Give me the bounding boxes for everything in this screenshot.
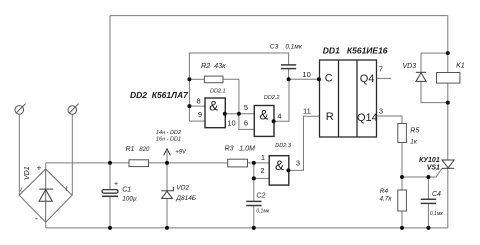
svg-text:6: 6 <box>244 119 248 128</box>
svg-text:2: 2 <box>260 166 264 175</box>
svg-text:&: & <box>209 99 218 114</box>
wire node C to DD1 pin10 <box>289 78 320 80</box>
node R2 left <box>187 77 191 81</box>
wire C4 lower lead <box>427 203 429 228</box>
op gate DD2.1 <box>205 98 225 128</box>
wire +V rail from bridge to R1 <box>46 162 129 164</box>
node pin8 tap <box>187 104 191 108</box>
wire C2 lower lead <box>253 206 255 228</box>
wire +9V arrow stem <box>166 151 168 163</box>
node DD1 pin10 entry <box>317 77 321 81</box>
svg-text:9: 9 <box>198 110 202 119</box>
svg-text:0,1мк: 0,1мк <box>430 211 443 217</box>
capacitor C4 <box>421 199 436 203</box>
resistor R5 <box>398 124 407 143</box>
svg-text:+: + <box>114 181 118 188</box>
+9V arrowhead <box>164 149 171 156</box>
wire C1 lower lead <box>109 197 111 228</box>
svg-text:R: R <box>326 111 334 123</box>
node R4 ground <box>400 226 404 230</box>
node C1 ground <box>108 226 112 230</box>
terminal X2 input right <box>68 104 79 115</box>
capacitor C3 <box>281 65 296 69</box>
wire DD2.3 output to DD1 pin11 <box>289 116 320 170</box>
svg-text:R5: R5 <box>410 127 419 134</box>
svg-text:K1: K1 <box>456 62 465 69</box>
wire C1 upper lead <box>109 163 111 189</box>
svg-text:10: 10 <box>227 119 235 128</box>
wire left drop from top rail to C1 node <box>109 16 111 163</box>
resistor R1 <box>129 160 149 167</box>
svg-text:0,1мк: 0,1мк <box>256 209 269 215</box>
svg-text:8: 8 <box>197 97 201 106</box>
wire R4 bottom lead <box>401 211 403 228</box>
node C3 bottom <box>287 77 291 81</box>
chip DD1 counter box <box>320 60 377 137</box>
wire bridge plus stub <box>45 163 47 169</box>
wire C2 upper lead <box>253 178 255 201</box>
svg-text:820: 820 <box>139 147 150 153</box>
svg-text:5: 5 <box>244 103 248 112</box>
svg-text:DD2.3: DD2.3 <box>275 143 292 149</box>
node gate R5/R4 <box>400 175 404 179</box>
svg-text:VD3: VD3 <box>403 63 417 70</box>
node DD2.2 output <box>272 119 276 123</box>
wire R5 bottom to gate node <box>401 143 403 178</box>
capacitor C2 <box>246 201 261 205</box>
wire bridge minus stub <box>45 222 47 228</box>
wire DD1 pin3 to R5 <box>377 116 403 124</box>
svg-text:R4: R4 <box>380 188 389 195</box>
op gate DD2.2 <box>254 106 274 137</box>
wire C3 bottom lead <box>288 69 290 80</box>
svg-text:3: 3 <box>379 107 383 116</box>
svg-text:11: 11 <box>303 106 311 115</box>
wire AC feed left <box>18 114 20 195</box>
svg-text:DD2 К561ЛА7: DD2 К561ЛА7 <box>130 90 189 100</box>
svg-text:10: 10 <box>302 70 310 79</box>
thyristor VS1 <box>442 160 454 168</box>
node VD2 ground <box>165 226 169 230</box>
terminal X1 input left <box>15 104 26 115</box>
svg-text:R1: R1 <box>126 146 135 153</box>
wire node A vertical with top jog to C3 <box>189 53 288 121</box>
svg-text:КУ101: КУ101 <box>419 157 440 164</box>
svg-text:100µ: 100µ <box>122 195 137 202</box>
svg-text:-: - <box>35 214 38 224</box>
svg-text:1: 1 <box>261 153 265 162</box>
bridge rectifier VD1 <box>19 169 72 222</box>
capacitor C1 electrolytic <box>102 190 118 197</box>
svg-text:~: ~ <box>16 187 26 192</box>
resistor R2 <box>204 76 223 83</box>
node pin2/C2 <box>252 176 256 180</box>
wire AC feed right <box>71 114 73 195</box>
wire gate node to VS1 gate <box>402 168 442 177</box>
svg-text:DD1 К561ИЕ16: DD1 К561ИЕ16 <box>323 46 388 56</box>
svg-text:C3: C3 <box>270 43 279 50</box>
wire DD2.1 pin9 <box>189 120 205 122</box>
svg-text:+9V: +9V <box>175 150 187 156</box>
svg-text:14н - DD2: 14н - DD2 <box>156 130 181 136</box>
node DD2.3 output <box>286 168 290 172</box>
svg-text:&: & <box>275 158 284 173</box>
wire VD3 branch bottom <box>421 81 448 102</box>
wire DD2.2 pin6 <box>239 114 254 130</box>
resistor R4 <box>398 190 407 211</box>
svg-text:+: + <box>37 163 42 172</box>
wire relay bottom to VS1 anode <box>447 83 449 160</box>
wire VD2 lower lead <box>166 198 168 228</box>
node R3/pin1 <box>252 161 256 165</box>
svg-text:3: 3 <box>296 159 300 168</box>
wire R2 right lead down to node B <box>223 79 239 114</box>
svg-text:DD2.1: DD2.1 <box>210 88 226 94</box>
svg-text:DD2.2: DD2.2 <box>264 95 280 101</box>
svg-text:VD1: VD1 <box>24 166 31 180</box>
node C1/rail <box>108 161 112 165</box>
node VD3 top <box>446 51 450 55</box>
wire R1 to R3 <box>149 162 228 164</box>
wire DD2.2 output up to node C <box>274 79 289 121</box>
wire VD2 upper lead <box>166 163 168 191</box>
node C2 ground <box>252 226 256 230</box>
wire top rail <box>110 15 448 17</box>
svg-text:4.7к: 4.7к <box>379 196 392 203</box>
svg-text:VS1: VS1 <box>427 165 440 172</box>
svg-text:C: C <box>325 73 333 85</box>
wire right drop to relay node <box>447 16 449 73</box>
wire DD1 pin7 stub <box>377 77 392 79</box>
node C4 ground <box>426 226 430 230</box>
diode VD3 <box>416 72 426 81</box>
node B <box>237 112 241 116</box>
resistor R3 <box>228 159 248 167</box>
svg-text:&: & <box>259 108 268 123</box>
node C4 top <box>426 175 430 179</box>
wire DD2.1 pin8 <box>189 105 205 107</box>
svg-text:1к: 1к <box>410 138 418 145</box>
svg-text:7: 7 <box>379 65 383 74</box>
wire R2 left lead <box>189 78 204 80</box>
svg-text:0,1мк: 0,1мк <box>285 43 302 50</box>
svg-text:16н - DD1: 16н - DD1 <box>156 137 181 143</box>
wire DD2.1 output to DD2.2 pin5 <box>225 113 254 115</box>
wire VS1 cathode to bottom rail <box>447 168 449 228</box>
svg-text:Q4: Q4 <box>360 73 375 85</box>
svg-text:R3 1,0М: R3 1,0М <box>225 145 256 152</box>
wire bottom rail <box>46 227 448 229</box>
svg-text:4: 4 <box>277 112 281 121</box>
svg-text:C1: C1 <box>122 186 131 193</box>
op gate DD2.3 <box>269 156 289 185</box>
node DD2.1 output <box>223 112 227 116</box>
svg-text:~: ~ <box>62 186 72 191</box>
relay K1 <box>437 73 460 84</box>
wire R3 to DD2.3 pin1 <box>248 162 270 164</box>
wire DD2.3 pin2 <box>254 177 269 179</box>
svg-text:C2: C2 <box>256 193 265 200</box>
wire node D vertical pin1-pin2 <box>253 163 255 179</box>
zener diode VD2 <box>161 187 173 198</box>
wire C4 upper lead <box>427 177 429 199</box>
wire VD3 branch top <box>421 53 448 72</box>
svg-text:C4: C4 <box>432 191 441 198</box>
node VD3 bottom <box>446 101 450 105</box>
svg-text:Q14: Q14 <box>357 112 378 124</box>
node +9V/VD2 <box>165 161 169 165</box>
svg-text:Д814Б: Д814Б <box>175 195 196 202</box>
svg-text:VD2: VD2 <box>176 184 189 191</box>
wire R4 top lead <box>401 177 403 190</box>
svg-text:R2 43к: R2 43к <box>201 61 226 70</box>
